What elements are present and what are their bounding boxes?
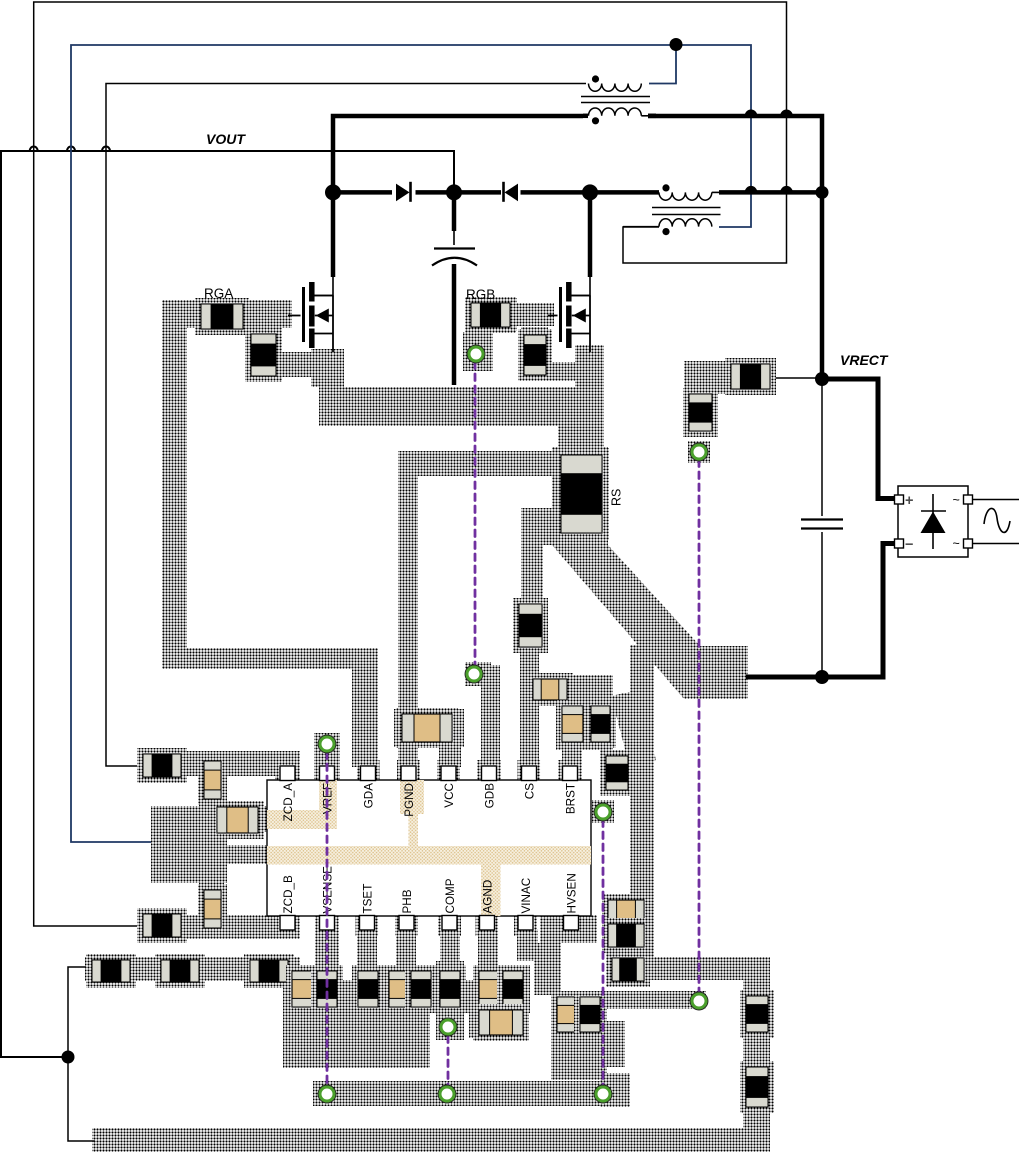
capacitor CS cap bbox=[527, 673, 573, 706]
copper pour VSENSE pair pad bbox=[287, 965, 342, 1013]
copper pour RS top bridge bbox=[558, 426, 604, 447]
wire thick bridge minus return bbox=[746, 544, 896, 678]
svg-text:COMP: COMP bbox=[444, 878, 457, 913]
copper pour FET B source bbox=[575, 345, 604, 387]
resistor RGB bbox=[465, 297, 516, 333]
pin COMP (bottom) bbox=[442, 916, 457, 931]
resistor RS (current sense) bbox=[554, 448, 609, 540]
copper pour big power strip bbox=[319, 387, 604, 426]
resistor ZCD_A series bbox=[137, 748, 187, 783]
copper pour pin pad top bbox=[397, 760, 420, 782]
transformer T2 (inductor L-B with ZCD winding) bbox=[652, 184, 721, 235]
copper pour right vertical strip bbox=[630, 645, 654, 958]
copper pour pad upper-right pair bbox=[604, 895, 648, 951]
wire thick FET A drain stub bbox=[331, 192, 336, 277]
diode D2 bbox=[505, 184, 519, 202]
resistor bottom row 3 bbox=[244, 954, 294, 988]
wire thick diode rail bbox=[333, 190, 822, 195]
capacitor PHB tan bbox=[383, 965, 415, 1013]
pin PGND (top) bbox=[401, 766, 416, 781]
copper pour ZCD block bbox=[151, 806, 227, 883]
copper pour ZCD_A strip bbox=[137, 751, 300, 776]
resistor bottom row 1 bbox=[86, 954, 136, 988]
via VREF bbox=[320, 737, 334, 751]
pin VCC (top) bbox=[441, 766, 456, 781]
via bottom 1 bbox=[320, 1087, 334, 1101]
capacitor AGND tan bbox=[473, 965, 505, 1013]
wire thin cap link bbox=[453, 231, 455, 245]
copper pour VRECT sense pads bbox=[684, 361, 776, 394]
wire junction-to-bottom-strip bbox=[68, 1063, 95, 1141]
svg-text:ZCD_A: ZCD_A bbox=[282, 783, 295, 822]
copper pour RGB-to-gate strip bbox=[510, 303, 554, 326]
copper pour ZCD vertical lower bbox=[199, 881, 224, 939]
svg-text:BRST: BRST bbox=[564, 783, 577, 814]
wire thin FET B drain bbox=[572, 277, 591, 296]
junction node right rail bbox=[816, 186, 829, 199]
svg-text:VOUT: VOUT bbox=[206, 131, 246, 147]
copper pour bottom block bbox=[283, 988, 430, 1068]
svg-text:ZCD_B: ZCD_B bbox=[282, 875, 295, 914]
transformer T1 (inductor L-A with ZCD winding) bbox=[581, 75, 650, 124]
resistor right pair black bbox=[574, 991, 606, 1038]
resistor upper-right black bbox=[602, 918, 650, 953]
resistor bottom row 2 bbox=[155, 954, 205, 988]
copper pour GDB via pad bbox=[465, 662, 491, 686]
svg-text:+: + bbox=[905, 493, 913, 509]
copper pour VRECT via pad bbox=[688, 441, 710, 463]
wire thick boost-A top rail bbox=[333, 116, 822, 381]
copper pour AGND strip bbox=[478, 929, 498, 971]
copper pour pin pad top bbox=[357, 760, 380, 782]
copper pour small block right bbox=[604, 1021, 625, 1067]
resistor BRST lower bbox=[600, 750, 634, 796]
resistor RGA bbox=[195, 298, 249, 335]
copper pour GDA drop to pin bbox=[352, 648, 378, 767]
copper pour AGND pair pad bbox=[473, 965, 530, 1013]
wire top loop ZCD_B net bbox=[34, 2, 787, 926]
svg-text:RGA: RGA bbox=[204, 286, 233, 301]
copper pour COMP strip bbox=[440, 929, 460, 965]
copper pour bottom strip bbox=[92, 1128, 770, 1152]
copper pour CS strip from RS bbox=[521, 515, 543, 604]
copper pour pad of CS filter cap bbox=[528, 674, 572, 704]
resistor ZCD_B series bbox=[137, 908, 187, 943]
pin ZCD_B (bottom) bbox=[280, 916, 295, 931]
wire thin RS sense to VRECT bbox=[770, 377, 820, 379]
copper pour AGND strip to IC bbox=[216, 845, 267, 864]
copper pour pad SMD B2 bbox=[521, 327, 548, 381]
junction node bottom rail bbox=[815, 670, 829, 684]
wire VOUT hop detail bbox=[30, 147, 110, 152]
copper pour ZCD block to IC bbox=[216, 806, 267, 832]
pin VINAC (bottom) bbox=[518, 916, 533, 931]
copper pour HVSEN pad below IC bbox=[540, 915, 597, 943]
copper pour gate-A bottom strip bbox=[162, 648, 378, 669]
wire thin T2 sec left bbox=[623, 226, 659, 228]
wire junction-to-row bbox=[68, 967, 92, 1051]
wire blue VSENSE divider net bbox=[71, 45, 751, 842]
copper pour pin pad bottom bbox=[356, 914, 379, 936]
wire thick cap to pour bbox=[452, 264, 457, 385]
copper pour strip to VRECT via bbox=[556, 991, 706, 1009]
bridge rectifier BR1 bbox=[895, 486, 973, 557]
via GDB bbox=[467, 667, 481, 681]
wire thin VRECT cap branch bbox=[821, 379, 823, 677]
copper pour pin pad bottom bbox=[514, 914, 537, 936]
copper pour HVSEN drop bbox=[534, 943, 561, 995]
copper pour pin pad top bbox=[478, 760, 501, 782]
copper pour bottom-left row strip bbox=[85, 957, 300, 981]
capacitor AGND filter tan bbox=[473, 1004, 529, 1041]
capacitor right pair tan bbox=[551, 991, 583, 1038]
copper pour RGB pad bbox=[465, 298, 517, 331]
net GDB dashed via-link bbox=[474, 362, 477, 666]
copper pour pad SMD A2 bbox=[246, 328, 281, 382]
copper pour PGND horizontal strip bbox=[398, 451, 560, 476]
resistor VRECT sense top bbox=[725, 358, 776, 395]
copper pour CS notch at RS bbox=[521, 508, 552, 545]
junction node A bbox=[325, 184, 341, 200]
via bottom 3 bbox=[596, 1087, 610, 1101]
pin BRST (top) bbox=[563, 766, 578, 781]
svg-text:VRECT: VRECT bbox=[840, 352, 889, 368]
junction node VOUT bottom bbox=[62, 1051, 75, 1064]
copper pour pin pad bottom bbox=[316, 914, 339, 936]
copper pour pin pad bottom bbox=[395, 914, 418, 936]
copper pour TSET strip bbox=[357, 929, 377, 971]
copper pour CS drop to pin bbox=[520, 647, 539, 767]
copper pour pin pad bottom bbox=[438, 914, 461, 936]
pin VSENSE (bottom) bbox=[320, 916, 335, 931]
svg-text:PHB: PHB bbox=[401, 889, 414, 913]
wire VOUT loop: top rail left edge and bottom return bbox=[1, 151, 454, 1057]
svg-text:PGND: PGND bbox=[403, 783, 416, 817]
wire thick T1 secondary left bbox=[583, 114, 588, 119]
capacitor CS filter bbox=[513, 598, 548, 653]
resistor A2 (gate pulldown A) bbox=[245, 328, 282, 382]
wire thick VRECT to bridge plus bbox=[822, 379, 896, 499]
wire thick T1 secondary right bbox=[648, 114, 656, 119]
copper pour via strip right end bbox=[600, 1073, 630, 1107]
via VRECT sense bbox=[692, 445, 706, 459]
copper pour small diagonal bbox=[611, 690, 656, 768]
wire thin FET A drain bbox=[315, 277, 334, 296]
pin TSET (bottom) bbox=[360, 916, 375, 931]
via COMP bbox=[441, 1020, 455, 1034]
svg-text:~: ~ bbox=[953, 537, 960, 551]
copper pour pin pad bottom bbox=[476, 914, 499, 936]
capacitor ZCD mid tan bbox=[211, 801, 264, 839]
net VREF dashed via-link bbox=[326, 752, 329, 1086]
wire AC line top bbox=[973, 499, 1020, 501]
wire gate B bbox=[548, 315, 558, 317]
copper pour AGND filter pad bbox=[469, 1006, 529, 1038]
pin GDB (top) bbox=[482, 766, 497, 781]
copper pour ZCD_B pin pad bbox=[275, 911, 300, 937]
copper pour strip B2 to source bbox=[544, 362, 575, 381]
resistor TSET bbox=[352, 965, 384, 1013]
pin PHB (bottom) bbox=[399, 916, 414, 931]
via bottom 2 bbox=[440, 1087, 454, 1101]
via BRST bbox=[596, 805, 610, 819]
copper pour pin pad bottom bbox=[560, 914, 583, 936]
via VRECT sense bottom bbox=[692, 994, 706, 1008]
copper pour RGB via pad bbox=[463, 332, 493, 371]
copper pour BRST via pad bbox=[592, 800, 614, 823]
resistor right row bbox=[606, 952, 650, 987]
copper pour pin pad top bbox=[518, 760, 541, 782]
resistor PHB black bbox=[405, 965, 437, 1013]
net COMP dashed via-link bbox=[447, 1036, 450, 1085]
wire thin T1 sec right link bbox=[641, 115, 648, 117]
pin VREF (top) bbox=[320, 766, 335, 781]
svg-text:RGB: RGB bbox=[466, 287, 495, 302]
svg-text:−: − bbox=[905, 537, 913, 553]
resistor VRECT sense vertical bbox=[683, 388, 718, 437]
diode D1 bbox=[396, 184, 410, 202]
copper pour CS SMD pad bbox=[515, 598, 548, 652]
capacitor VSENSE tan bbox=[286, 965, 318, 1013]
capacitor ZCD lower tan bbox=[198, 884, 227, 934]
copper pour via strip bbox=[313, 1081, 600, 1106]
junction node B bbox=[582, 184, 598, 200]
copper pour VINAC strip bbox=[517, 929, 538, 961]
copper pour BRST drop to pin bbox=[562, 749, 582, 767]
pin HVSEN (bottom) bbox=[564, 916, 579, 931]
wire thick FET B drain stub bbox=[588, 192, 593, 277]
copper pour pin pad top bbox=[559, 760, 582, 782]
copper pour ZCD_B strip bbox=[137, 915, 300, 939]
svg-text:RS: RS bbox=[610, 489, 624, 506]
resistor B2 (gate pulldown B) bbox=[518, 329, 552, 381]
copper pour gate-A left vertical bbox=[162, 300, 187, 669]
copper pour ZCD_A pin pad bbox=[275, 760, 300, 782]
svg-text:VCC: VCC bbox=[443, 783, 456, 808]
copper pour right row strip bbox=[646, 957, 770, 980]
pin CS (top) bbox=[522, 766, 537, 781]
wire gate A bbox=[288, 315, 301, 317]
copper pour GDB drop to pin bbox=[481, 665, 500, 767]
transistor Q-B (boost MOSFET B) bbox=[561, 282, 591, 352]
copper pour right pair pad bbox=[551, 991, 607, 1080]
resistor AGND black bbox=[497, 965, 529, 1013]
net HVSEN dashed via-link bbox=[698, 460, 701, 993]
copper pour big diagonal band bbox=[552, 545, 748, 699]
copper pour PGND vertical strip bbox=[398, 451, 418, 767]
svg-text:VINAC: VINAC bbox=[520, 878, 533, 914]
copper pour VCC drop to pin bbox=[439, 712, 461, 767]
copper pour ZCD vertical upper bbox=[199, 751, 224, 806]
pin GDA (top) bbox=[361, 766, 376, 781]
capacitor flying cap bbox=[434, 247, 475, 249]
pin ZCD_A (top) bbox=[280, 766, 295, 781]
capacitor VCC bypass bbox=[396, 708, 458, 748]
copper pour RS pad bbox=[552, 447, 608, 545]
copper pour strip A2 to source bbox=[249, 352, 322, 377]
capacitor BRST tan bbox=[556, 700, 589, 748]
copper pour FET A source bbox=[311, 349, 344, 387]
resistor right strip 2 bbox=[740, 1061, 774, 1113]
via RGB gate sense bbox=[469, 347, 483, 361]
copper pour TSET pad bbox=[352, 965, 384, 1013]
copper pour pin pad top bbox=[316, 760, 339, 782]
copper pour PHB pair pad bbox=[384, 965, 436, 1013]
copper pour pin pad bottom bbox=[276, 914, 299, 936]
copper pour pin pad top bbox=[276, 760, 299, 782]
wire thin T2 pri right link bbox=[712, 191, 719, 193]
svg-text:AGND: AGND bbox=[481, 880, 494, 914]
junction node blue T bbox=[670, 38, 683, 51]
wire ZCD_A net bbox=[106, 84, 586, 767]
copper pour pin pad top bbox=[437, 760, 460, 782]
junction node VRECT bbox=[815, 372, 829, 386]
copper pour VRECT sense vertical pad bbox=[684, 388, 717, 437]
wire blue branch to T1 primary bbox=[649, 45, 676, 84]
svg-text:TSET: TSET bbox=[361, 884, 374, 914]
resistor VSENSE black bbox=[311, 965, 343, 1013]
junction node center bbox=[446, 184, 462, 200]
copper pour VSENSE pad bbox=[315, 911, 339, 971]
transistor Q-A (boost MOSFET A) bbox=[304, 282, 334, 352]
svg-text:CS: CS bbox=[523, 783, 536, 799]
svg-text:~: ~ bbox=[953, 493, 960, 507]
capacitor ZCD upper tan bbox=[198, 755, 227, 805]
copper pour PHB strip bbox=[396, 929, 416, 971]
wire thick hop bumps bbox=[745, 110, 794, 193]
wire AC line bottom bbox=[973, 543, 1020, 545]
op-amp U1 controller IC body (UCC28061) bbox=[267, 780, 591, 916]
net BRST dashed via-link bbox=[602, 820, 605, 1086]
copper pour pad BRST lower SMD bbox=[601, 750, 633, 796]
copper pour COMP pad and via peninsula bbox=[436, 961, 464, 1040]
copper pour VCC SMD pads bbox=[394, 709, 464, 747]
resistor right strip 1 bbox=[740, 990, 774, 1038]
pin AGND (bottom) bbox=[480, 916, 495, 931]
svg-text:HVSEN: HVSEN bbox=[565, 873, 578, 913]
AC source sine symbol bbox=[984, 508, 1010, 532]
copper pour BRST pair pad bbox=[556, 675, 613, 750]
copper pour gate-A strip under RGA bbox=[162, 300, 292, 328]
capacitor upper-right tan bbox=[602, 894, 650, 928]
svg-text:GDB: GDB bbox=[483, 783, 496, 809]
copper pour VREF pad bbox=[314, 733, 340, 782]
wire thick cap stub bbox=[452, 192, 457, 231]
resistor COMP bbox=[434, 965, 466, 1013]
resistor BRST black bbox=[585, 700, 616, 748]
copper pour bottom merge band bbox=[287, 980, 530, 1013]
capacitor bulk cap VRECT bbox=[801, 518, 843, 520]
svg-text:GDA: GDA bbox=[362, 783, 375, 809]
copper pour right vertical strip low bbox=[743, 957, 770, 1152]
